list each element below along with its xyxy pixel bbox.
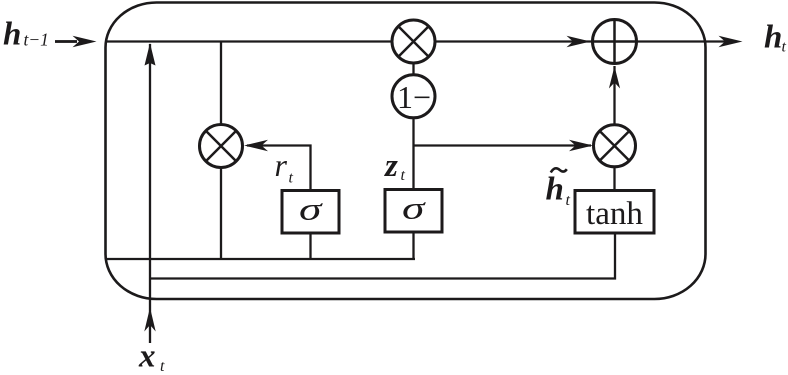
- label h_(t-1): [3, 17, 49, 53]
- svg-text:t: t: [160, 358, 165, 375]
- label r_t: [275, 147, 294, 187]
- sigma box (reset gate): [282, 191, 339, 234]
- wire: drop to reset multiplier: [220, 42, 222, 260]
- wire: sigma-r riser with arrow run: [247, 146, 311, 191]
- multiplier circle (reset gate): [200, 125, 243, 168]
- svg-text:σ: σ: [299, 192, 323, 227]
- svg-text:t: t: [566, 192, 571, 209]
- svg-text:σ: σ: [402, 191, 426, 226]
- wire: bottom bus line1: [106, 258, 415, 260]
- multiplier circle (output, candidate x update): [594, 125, 636, 167]
- svg-text:t: t: [289, 170, 294, 187]
- svg-text:x: x: [138, 339, 156, 375]
- svg-text:tanh: tanh: [586, 196, 643, 232]
- label z_t: [384, 148, 406, 184]
- 1-minus circle: [392, 75, 435, 118]
- label x_t: [138, 339, 165, 375]
- wire: z branch to output multiplier: [414, 144, 592, 146]
- wire: sigma-r drop to bus: [309, 233, 311, 259]
- tanh box: [575, 191, 654, 234]
- sigma box (update gate): [385, 190, 442, 233]
- svg-text:r: r: [275, 147, 288, 183]
- svg-text:z: z: [384, 148, 398, 184]
- arrowhead: z branch into output multiplier: [569, 140, 593, 151]
- GRU cell boundary (rounded rectangle): [106, 3, 706, 300]
- label h-tilde_t: [546, 168, 571, 209]
- svg-text:t: t: [401, 167, 406, 184]
- arrowhead: x_t into h line: [145, 43, 156, 66]
- wire: x_t vertical input: [149, 44, 151, 343]
- svg-text:t−1: t−1: [24, 30, 49, 50]
- wire: output multiplier to adder and tanh: [613, 66, 615, 190]
- svg-text:h: h: [764, 20, 782, 56]
- svg-text:h: h: [3, 17, 21, 53]
- arrowhead: h_(t-1) input: [73, 36, 97, 47]
- arrowhead: h_t output: [719, 36, 743, 47]
- svg-text:1−: 1−: [397, 79, 431, 115]
- adder circle: [593, 20, 637, 64]
- wire: main h line (h_(t-1) to h_t): [106, 40, 726, 42]
- arrowhead: output multiplier into adder: [609, 66, 620, 88]
- svg-text:t: t: [782, 39, 787, 56]
- wire: z stem (1- circle to sigma-z): [412, 62, 414, 190]
- svg-text:h: h: [546, 172, 564, 208]
- wire: sigma-z drop to bus: [412, 232, 414, 259]
- arrowhead: into adder on h line: [567, 36, 591, 47]
- wire: candidate feed (x line to tanh bottom): [150, 233, 615, 279]
- multiplier circle (update gate, on h line): [392, 20, 435, 63]
- arrowhead: sigma-r to reset multiplier: [244, 140, 268, 151]
- arrowhead: x_t below cell: [144, 308, 155, 332]
- label h_t (output): [764, 20, 787, 56]
- arrow shaft: h_(t-1) input: [55, 40, 77, 43]
